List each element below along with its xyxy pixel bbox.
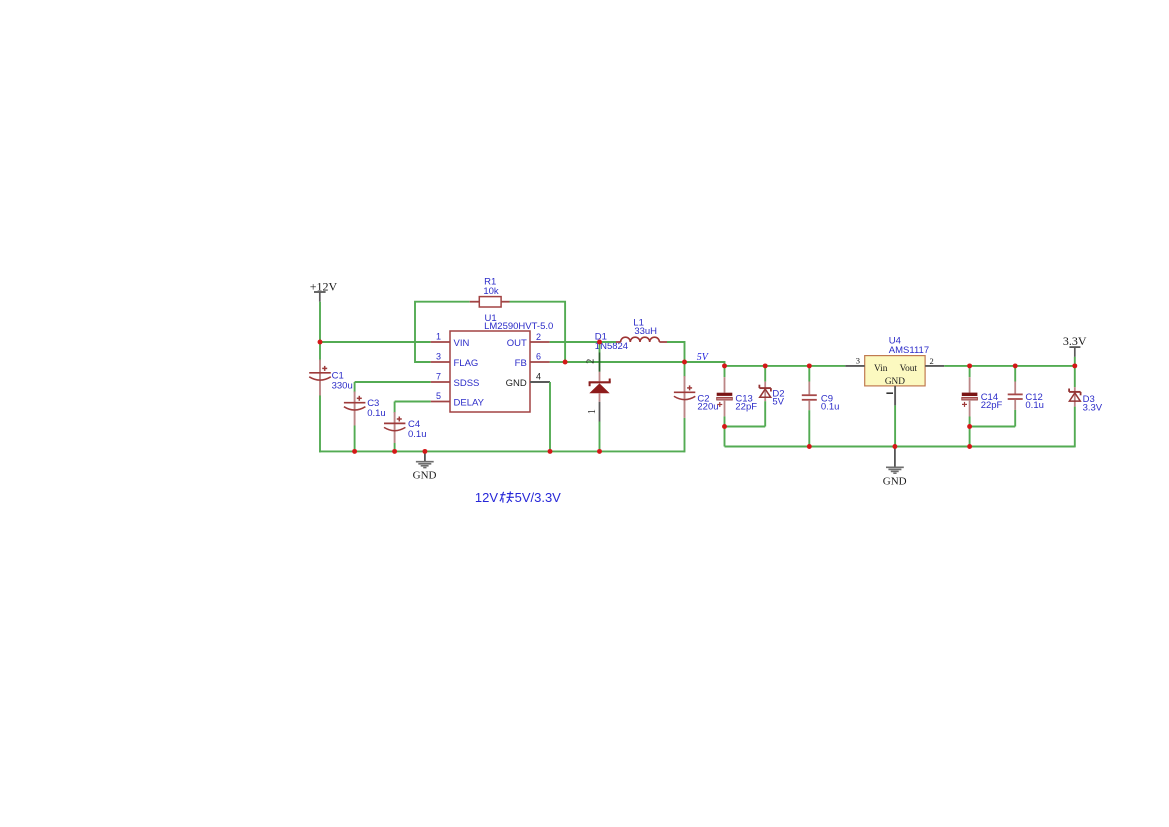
wire C13 column down to right ground rail [724, 427, 726, 447]
svg-text:FB: FB [515, 358, 527, 369]
svg-text:FLAG: FLAG [454, 358, 479, 369]
wire jog C13 bottom to D2 bottom [725, 426, 766, 428]
regulator U4 AMS1117 [845, 335, 944, 405]
svg-text:GND: GND [885, 377, 905, 387]
svg-text:5V/3.3V: 5V/3.3V [515, 490, 562, 505]
wire 3.3V stem to node [1074, 357, 1076, 366]
wire L1 to 5V node [667, 342, 685, 362]
svg-text:3.3V: 3.3V [1083, 402, 1103, 413]
wire +12V stem down to VIN node [319, 302, 321, 342]
capacitor C3 0.1u [344, 392, 386, 426]
svg-text:4: 4 [536, 372, 541, 382]
power symbol 3.3V [1063, 334, 1087, 357]
svg-text:22pF: 22pF [981, 400, 1003, 411]
svg-text:0.1u: 0.1u [821, 402, 840, 413]
svg-text:0.1u: 0.1u [367, 408, 386, 419]
wire U1 GND pin down to ground rail [549, 382, 551, 451]
junction U1 GND column ground [548, 449, 553, 454]
junction C14 top [967, 363, 972, 368]
wire D1 anode to ground rail [599, 422, 601, 452]
svg-text:1: 1 [587, 409, 598, 414]
wire C2 bottom to ground rail [684, 418, 686, 453]
resistor R1 10k [470, 277, 510, 307]
svg-text:GND: GND [883, 475, 907, 487]
junction D2 top [763, 363, 768, 368]
wire D3 bottom to ground rail [1074, 407, 1076, 448]
diode D1 1N5824 [586, 332, 628, 422]
svg-text:GND: GND [506, 378, 527, 389]
capacitor C1 330u [309, 360, 353, 396]
capacitor C2 220u [674, 376, 719, 418]
wire C2 top [684, 362, 686, 377]
wire U1 DELAY to C4 [395, 401, 431, 403]
svg-text:6: 6 [536, 352, 541, 362]
wire U1 FLAG to R1 left [415, 302, 470, 362]
junction C9 ground [807, 444, 812, 449]
zener diode D2 5V [759, 366, 784, 408]
wire 5V node to jog corner [685, 362, 725, 366]
junction node VIN [318, 340, 323, 345]
wire C13 bottom to jog node [724, 416, 726, 426]
wire C14 column down to ground rail [969, 427, 971, 447]
svg-text:3: 3 [856, 355, 860, 365]
svg-text:VIN: VIN [454, 338, 470, 349]
junction U4 GND ground [892, 444, 897, 449]
wire VIN node to U1 pin 1 [320, 341, 431, 343]
junction C12 top [1013, 363, 1018, 368]
svg-text:OUT: OUT [507, 338, 527, 349]
svg-text:33uH: 33uH [634, 326, 657, 337]
IC U1 LM2590HVT-5.0 [431, 313, 554, 412]
svg-text:3: 3 [436, 352, 441, 362]
wire D2 bottom to jog [764, 401, 766, 426]
svg-text:AMS1117: AMS1117 [889, 345, 929, 356]
wire C4 top [394, 402, 396, 414]
junction C13 top [722, 363, 727, 368]
junction C14 bottom [967, 424, 972, 429]
svg-text:2: 2 [536, 332, 541, 342]
svg-text:3.3V: 3.3V [1063, 334, 1087, 348]
svg-text:SDSS: SDSS [454, 378, 480, 389]
ground symbol GND left [413, 451, 437, 481]
capacitor C12 0.1u [1008, 366, 1044, 411]
svg-text:DELAY: DELAY [454, 397, 485, 408]
capacitor C4 0.1u [384, 412, 427, 443]
svg-text:7: 7 [436, 372, 441, 382]
title text 12V to 5V/3.3V [475, 490, 561, 505]
svg-text:5V: 5V [772, 396, 784, 407]
wire U4 GND down to ground rail [894, 405, 896, 446]
svg-text:12V: 12V [475, 490, 498, 505]
junction C14 ground [967, 444, 972, 449]
wire jog C14 bottom to C12 bottom [970, 426, 1016, 428]
wire C4 bottom to ground rail [394, 443, 396, 451]
wire U1 SDSS to C3 [355, 381, 431, 383]
wire C14 bottom to jog node [969, 417, 971, 427]
wire C3 top [354, 382, 356, 393]
svg-text:GND: GND [413, 469, 437, 481]
svg-text:0.1u: 0.1u [408, 429, 427, 440]
junction OUT/D1 node [597, 340, 602, 345]
wire U4 Vout to 3.3V rail [944, 365, 1075, 367]
junction D1 ground [597, 449, 602, 454]
junction GND ground [422, 449, 427, 454]
junction 3.3V node [1072, 363, 1077, 368]
wire C1 bottom to ground rail [319, 396, 321, 453]
inductor L1 33uH [616, 317, 667, 342]
capacitor C9 0.1u [802, 366, 840, 413]
wire C3 bottom to ground rail [354, 426, 356, 452]
wire C1 top [319, 342, 321, 361]
svg-text:0.1u: 0.1u [1025, 400, 1044, 411]
capacitor C13 22pF [717, 366, 758, 417]
svg-text:Vout: Vout [900, 364, 918, 374]
junction C9 top [807, 363, 812, 368]
svg-text:22pF: 22pF [735, 402, 757, 413]
wire 5V rail to U4 pin 3 [725, 365, 846, 367]
wire D1 node to L1 [600, 341, 617, 343]
power symbol +12V [310, 279, 338, 301]
svg-text:Vin: Vin [874, 364, 888, 374]
svg-text:220u: 220u [697, 402, 718, 413]
junction FB node [563, 360, 568, 365]
wire U1 FB to FB node [550, 361, 566, 363]
wire right ground rail [725, 446, 1075, 448]
svg-text:2: 2 [930, 356, 934, 366]
zener diode D3 3.3V [1069, 366, 1103, 414]
junction C13 bottom [722, 424, 727, 429]
ground symbol GND right [883, 447, 907, 488]
wire C9 bottom to ground rail [808, 410, 810, 446]
svg-text:2: 2 [586, 359, 597, 364]
svg-text:10k: 10k [483, 286, 499, 297]
wire FB node to 5V corner [565, 361, 684, 363]
svg-text:1: 1 [436, 332, 441, 342]
svg-text:5: 5 [436, 391, 441, 401]
wire R1 right to FB node [510, 302, 566, 362]
wire C12 bottom jog to C14 [1014, 410, 1016, 427]
svg-text:330u: 330u [332, 381, 353, 392]
junction C3 ground [352, 449, 357, 454]
wire U1 OUT to D1 node [550, 341, 600, 343]
junction 5V node [682, 360, 687, 365]
wire left ground rail [319, 450, 684, 452]
junction C4 ground [392, 449, 397, 454]
capacitor C14 22pF [962, 366, 1003, 417]
